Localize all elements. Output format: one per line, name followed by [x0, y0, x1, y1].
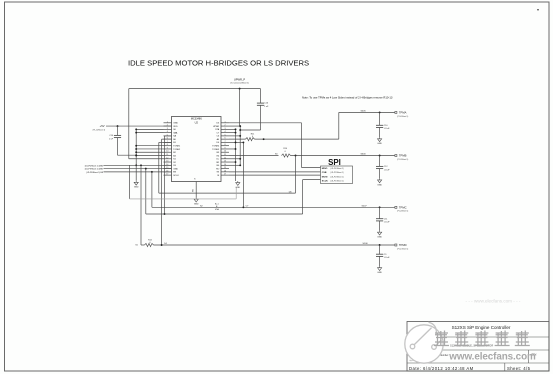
U2 right pin 14 (B0)	[221, 164, 229, 166]
svg-text:SR: SR	[216, 162, 219, 164]
svg-text:EN: EN	[173, 172, 176, 174]
svg-text:15: 15	[224, 167, 226, 169]
wire TPMB to pad	[291, 155, 395, 157]
title block line 2	[407, 349, 549, 351]
U2 right pin 4 (C7)	[221, 132, 229, 134]
ground C9	[378, 266, 382, 270]
node +5V C14 tap	[117, 125, 119, 127]
U2 right pin 12 (CC)	[221, 158, 229, 160]
node GND bus pin 4	[135, 132, 137, 134]
svg-text:SPI: SPI	[328, 158, 341, 167]
U2 right pin 11 (E4)	[221, 155, 229, 157]
wire TPMA horizontal	[339, 111, 395, 113]
node right bus C16	[239, 129, 241, 131]
node right bus pin 7	[235, 141, 237, 143]
svg-text:14: 14	[224, 164, 226, 166]
svg-text:13: 13	[166, 161, 168, 163]
svg-text:8: 8	[224, 144, 225, 146]
wire right pin 13 to GND bus	[229, 161, 236, 163]
U2 left pin 9 (TONE2)	[164, 148, 172, 150]
svg-text:GND: GND	[134, 187, 139, 189]
wire left pin 10 to GND bus	[136, 151, 163, 153]
svg-text:3: 3	[167, 128, 168, 130]
wire DIN0 drop to ground rail	[129, 165, 131, 199]
title block line 1	[407, 336, 549, 338]
wire UPWR_P leg to pin 12	[129, 158, 164, 160]
U2 left pin 6 (B0)	[164, 138, 172, 140]
svg-text:TPMD: TPMD	[399, 243, 407, 247]
U2 left pin 14 (S3)	[164, 164, 172, 166]
wire UPWR_P tap down to right pin 2 bus	[239, 89, 241, 126]
svg-text:UPWR_P: UPWR_P	[234, 77, 246, 81]
svg-text:(U1-P7/Sheet 1) DIN1: (U1-P7/Sheet 1) DIN1	[85, 168, 104, 171]
svg-text:(P1-1/Sheet 5): (P1-1/Sheet 5)	[397, 247, 408, 250]
svg-text:+5V: +5V	[100, 124, 105, 128]
svg-text:www.elecfans.com: www.elecfans.com	[448, 351, 536, 362]
node GND bus DIN0 row	[135, 164, 137, 166]
svg-text:IDLE SPEED MOTOR H-BRIDGES OR: IDLE SPEED MOTOR H-BRIDGES OR LS DRIVERS	[128, 58, 309, 67]
wire MOSI to SPI box	[229, 174, 321, 176]
wire SCLK wrap riser	[302, 180, 304, 214]
ground right bus	[236, 181, 240, 185]
U2 left pin 5 (SA)	[164, 135, 172, 137]
svg-text:17: 17	[166, 174, 168, 176]
svg-text:GND: GND	[235, 187, 240, 189]
svg-text:VDD: VDD	[173, 126, 178, 128]
node TPMA cap tap	[379, 111, 381, 113]
svg-text:MOSI: MOSI	[322, 176, 328, 178]
wire DIN1 to pin 15	[104, 168, 172, 170]
title block REV divider	[528, 350, 530, 363]
resistor R12	[145, 243, 154, 246]
wire SCLK to SPI box	[303, 179, 321, 181]
SPI signal box	[321, 166, 353, 184]
wire ground rail riser right	[235, 188, 237, 199]
wire left pin 9 to GND bus	[136, 148, 163, 150]
U2 right pin 5 (C6)	[221, 135, 229, 137]
ground under U2	[194, 198, 198, 202]
node TPMC cap tap	[379, 206, 381, 208]
svg-text:S12XS SiP Engine Controller: S12XS SiP Engine Controller	[452, 325, 511, 330]
node right bus pin 12	[239, 158, 241, 160]
svg-text:TONE1: TONE1	[173, 145, 181, 147]
svg-text:S300: S300	[360, 154, 366, 156]
svg-text:16: 16	[224, 170, 226, 172]
svg-text:(To Connector/Sheet 5): (To Connector/Sheet 5)	[230, 82, 249, 85]
svg-text:(P1-10/Sheet 3): (P1-10/Sheet 3)	[93, 129, 106, 132]
ground C12	[378, 178, 382, 182]
svg-text:1: 1	[167, 121, 168, 123]
svg-text:7: 7	[224, 141, 225, 143]
wire net S2 TPMC horizontal	[152, 206, 395, 208]
right UPWR bus lower	[239, 126, 241, 165]
capacitor C12	[379, 156, 381, 167]
capacitor C10	[379, 112, 381, 125]
wire TPMD left segment	[141, 244, 144, 246]
wire C14 bottom to GND bus	[118, 154, 137, 156]
svg-text:VAA: VAA	[173, 131, 178, 134]
node TPMB D6 tap	[295, 155, 297, 157]
terminal pad TPMB	[395, 155, 397, 157]
wire TPMB from pin 11	[229, 155, 279, 157]
svg-text:S405: S405	[360, 111, 366, 113]
right GND bus	[235, 129, 237, 181]
node TPMD cap tap	[379, 244, 381, 246]
wire right pin 3 to GND bus	[229, 128, 236, 130]
svg-text:4: 4	[224, 131, 225, 133]
U2 right pin 7 (D4)	[221, 141, 229, 143]
svg-text:.01 uF: .01 uF	[384, 128, 390, 130]
svg-text:1: 1	[224, 121, 225, 123]
U2 left pin 10 (B2)	[164, 151, 172, 153]
svg-text:CC: CC	[216, 159, 220, 161]
svg-text:GND: GND	[377, 237, 382, 239]
svg-text:TPMC: TPMC	[399, 205, 407, 209]
svg-text:GND: GND	[173, 123, 178, 125]
watermark chinese characters	[434, 331, 530, 346]
wire right pin 14 to bus	[229, 164, 240, 166]
resistor R11	[246, 138, 255, 141]
ground C10	[378, 137, 382, 141]
node right bus pin 9	[235, 148, 237, 150]
IC U2 MC33486 body	[172, 117, 222, 182]
svg-text:TONE2: TONE2	[173, 149, 181, 151]
wire CSB to SPI box	[229, 171, 321, 173]
U2 right pin 17 (SI)	[221, 174, 229, 176]
svg-text:(P1-4/Sheet 5): (P1-4/Sheet 5)	[397, 210, 408, 213]
wire C16 bottom to right GND bus	[240, 129, 260, 131]
wire vertical from pin 15 row	[145, 169, 147, 214]
U2 left pin 15 (GND)	[164, 168, 172, 170]
wire UPWR_P left leg down	[128, 89, 130, 159]
title block sheet divider	[504, 363, 506, 371]
page corner artifact dot	[537, 9, 539, 10]
node right bus pin 5	[239, 135, 241, 137]
terminal pad TPMA	[395, 111, 397, 113]
capacitor C9	[379, 245, 381, 254]
node UPWR_P rail tap	[239, 88, 241, 90]
svg-text:CSB: CSB	[322, 172, 327, 174]
capacitor C16	[260, 89, 262, 104]
svg-text:- - - www.elecfans.com - - -: - - - www.elecfans.com - - -	[466, 299, 521, 304]
svg-text:(P1-3/Sheet 5): (P1-3/Sheet 5)	[397, 158, 408, 161]
svg-text:11: 11	[224, 154, 226, 156]
U2 left pin 16 (EN)	[164, 171, 172, 173]
svg-text:GND: GND	[377, 143, 382, 145]
svg-text:17: 17	[224, 174, 226, 176]
wire MISO top horizontal	[229, 122, 302, 124]
wire vertical from pin 6 row	[161, 139, 163, 245]
U2 right pin 1 (D3)	[221, 122, 229, 124]
node right bus pin 4	[235, 132, 237, 134]
U2 left pin 17 (SCLK)	[164, 174, 172, 176]
svg-text:UPWR: UPWR	[213, 126, 220, 128]
node C7 junction	[242, 206, 244, 208]
wire D6 riser	[295, 156, 297, 194]
node right bus pin 13	[235, 161, 237, 163]
svg-text:12: 12	[224, 157, 226, 159]
wire right pin 4 to GND bus	[229, 132, 236, 134]
wire DIN0 to pin 14	[104, 164, 172, 166]
svg-text:.01 uF: .01 uF	[384, 169, 390, 171]
wire left pin 8 to GND bus	[136, 145, 163, 147]
node R11 wire	[263, 138, 265, 140]
capacitor C14	[117, 126, 119, 135]
svg-text:10: 10	[224, 151, 226, 153]
svg-text:(U1-P5/Sheet 1) DIN0: (U1-P5/Sheet 1) DIN0	[85, 164, 104, 167]
ground C11	[378, 231, 382, 235]
wire R11 from pin 6	[229, 138, 246, 140]
svg-text:.01 uF: .01 uF	[384, 257, 390, 259]
svg-text:Note: To use TPMs as 4 Low Sid: Note: To use TPMs as 4 Low Sides instead…	[302, 95, 393, 99]
U2 right pin 10 (B3)	[221, 151, 229, 153]
svg-text:GND: GND	[377, 272, 382, 274]
node GND bus C14	[135, 154, 137, 156]
title block frame	[407, 322, 549, 372]
wire net D6 horizontal	[159, 192, 296, 194]
node GND bus pin 8	[135, 145, 137, 147]
U2 left pin 13 (S2)	[164, 161, 172, 163]
watermark logo circle	[405, 322, 443, 363]
node right bus pin 2	[239, 125, 241, 127]
U2 right pin 9 (TONE3)	[221, 148, 229, 150]
svg-text:MISO: MISO	[322, 168, 328, 170]
terminal pad TPMD	[395, 244, 397, 246]
svg-text:(U1-P3/Sheet 1): (U1-P3/Sheet 1)	[331, 171, 344, 174]
title block line 3	[407, 362, 549, 364]
node GND bus pin 3	[135, 128, 137, 130]
svg-text:TPMB: TPMB	[399, 154, 407, 158]
U2 left pin 2 (VDD)	[164, 125, 172, 127]
svg-text:9: 9	[167, 147, 168, 149]
U2 right pin 6 (A4)	[221, 138, 229, 140]
wire left pin 3 to GND bus	[136, 128, 163, 130]
wire EN to pin 16	[104, 171, 172, 173]
capacitor C11	[379, 207, 381, 218]
terminal pad TPMC	[395, 206, 397, 208]
svg-text:TONE4: TONE4	[212, 145, 220, 147]
svg-text:Number:: Number:	[440, 354, 449, 357]
wire right pin 2 to bus	[229, 125, 240, 127]
svg-text:TN: TN	[216, 172, 219, 174]
ground left bus	[134, 181, 138, 185]
svg-text:SCLK: SCLK	[173, 175, 179, 177]
svg-text:8: 8	[167, 144, 168, 146]
U2 left pin 12 (S1)	[164, 158, 172, 160]
U2 left pin 4 (VAA)	[164, 132, 172, 134]
svg-text:TONE3: TONE3	[212, 149, 220, 151]
svg-text:4: 4	[167, 131, 168, 133]
svg-text:11: 11	[166, 154, 168, 156]
svg-text:(P1-6/Sheet 5): (P1-6/Sheet 5)	[397, 115, 408, 118]
node C7 bus top	[242, 141, 244, 143]
node GND bus pin 9	[135, 148, 137, 150]
U2 right pin 15 (RO)	[221, 168, 229, 170]
svg-text:5: 5	[224, 134, 225, 136]
svg-text:10: 10	[166, 151, 168, 153]
U2 right pin 13 (SR)	[221, 161, 229, 163]
wire +5V to pin 2	[106, 125, 172, 127]
svg-text:Date: 6/4/2012 10:42:48 AM: Date: 6/4/2012 10:42:48 AM	[409, 366, 474, 371]
svg-text:S207: S207	[361, 205, 367, 207]
node GND bus pin 10	[135, 151, 137, 153]
wire vertical from pin 5 row	[164, 136, 166, 214]
wire TPMA riser	[338, 112, 340, 139]
svg-text:.01 uF: .01 uF	[384, 222, 390, 224]
svg-text:GND: GND	[377, 184, 382, 186]
wire UPWR_P rail	[129, 88, 261, 90]
wire right pin 9 to GND bus	[229, 148, 236, 150]
U2 right pin 16 (TN)	[221, 171, 229, 173]
resistor R10	[282, 154, 291, 157]
U2 right pin 8 (TONE4)	[221, 145, 229, 147]
node right bus pin 14	[239, 164, 241, 166]
svg-text:MC33486: MC33486	[191, 117, 202, 120]
wire SCLK wrap horizontal	[146, 213, 303, 215]
U2 left pin 1 (GND)	[164, 122, 172, 124]
wire left pin 11 to GND bus	[136, 155, 163, 157]
wire right pin 7 to GND bus	[229, 141, 236, 143]
wire MISO to SPI box	[302, 167, 321, 169]
U2 left pin 3 (S0)	[164, 128, 172, 130]
svg-text:13: 13	[224, 161, 226, 163]
svg-text:2: 2	[224, 125, 225, 127]
svg-text:12: 12	[166, 157, 168, 159]
wire R11 to riser	[255, 138, 339, 140]
node TPMB cap tap	[379, 155, 381, 157]
svg-text:(U1-P6/Sheet 1) EN: (U1-P6/Sheet 1) EN	[86, 171, 103, 174]
wire vertical from pin 16 row	[151, 172, 153, 207]
svg-text:STA: STA	[215, 128, 220, 131]
svg-text:3: 3	[224, 128, 225, 130]
svg-text:GND: GND	[173, 168, 178, 170]
svg-text:V5A: V5A	[215, 208, 219, 211]
U2 bottom pin FB	[195, 182, 197, 198]
svg-text:SCLK: SCLK	[322, 181, 328, 183]
U2 left pin 7 (B1)	[164, 141, 172, 143]
U2 left pin 8 (TONE1)	[164, 145, 172, 147]
svg-text:6: 6	[224, 138, 225, 140]
node GND bus pin 11	[135, 155, 137, 157]
wire ground rail below IC	[130, 198, 237, 200]
svg-text:TPMA: TPMA	[399, 110, 407, 114]
svg-text:GND: GND	[194, 204, 199, 206]
U2 left pin 11 (B4)	[164, 155, 172, 157]
svg-text:S106: S106	[362, 243, 368, 245]
wire vertical from pin 7 row	[158, 142, 160, 193]
node right bus pin 3	[235, 128, 237, 130]
wire right pin 12 to bus	[229, 158, 240, 160]
svg-text:(U1-P2/Sheet 1): (U1-P2/Sheet 1)	[331, 175, 344, 178]
wire right pin 5 to bus	[229, 135, 240, 137]
svg-text:Sheet: 4/5: Sheet: 4/5	[507, 366, 531, 371]
svg-text:RO: RO	[216, 168, 220, 170]
svg-text:9: 9	[224, 147, 225, 149]
svg-text:(U1-P4/Sheet 1): (U1-P4/Sheet 1)	[331, 167, 344, 170]
node TPMD pin13 riser	[161, 244, 163, 246]
wire net C7 vertical	[242, 142, 244, 207]
left GND bus	[135, 129, 137, 180]
wire MISO riser	[301, 123, 303, 168]
wire net S1 vertical from pin 14 row	[140, 165, 142, 245]
svg-text:U2: U2	[195, 121, 199, 125]
U2 right pin 2 (UPWR)	[221, 125, 229, 127]
wire left pin 4 to GND bus	[136, 132, 163, 134]
U2 right pin 3 (STA)	[221, 128, 229, 130]
wire net D4 TPMD horizontal	[154, 244, 395, 246]
svg-text:(U1-P1/Sheet 1): (U1-P1/Sheet 1)	[331, 180, 344, 183]
